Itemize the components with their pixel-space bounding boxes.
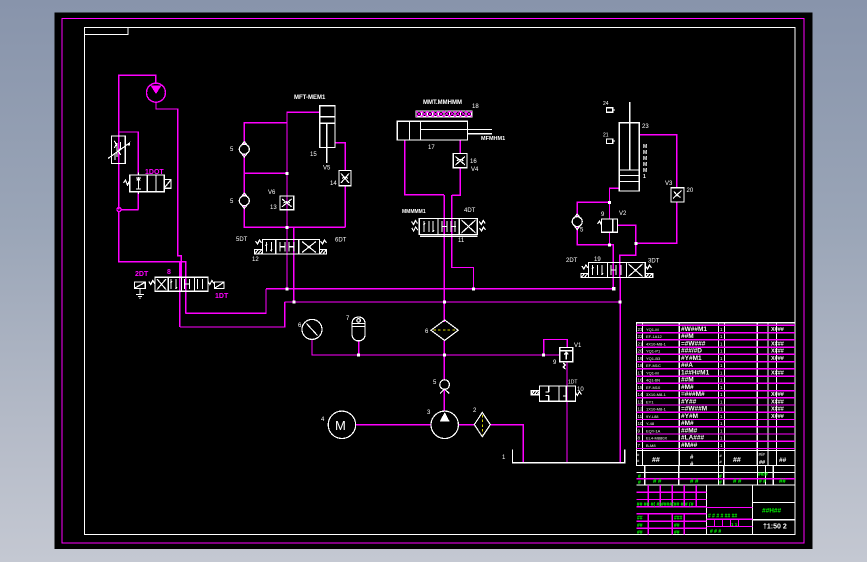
wire valve 12 port line 2 [293, 227, 295, 302]
svg-text:1DOT: 1DOT [145, 169, 164, 176]
svg-text:20: 20 [687, 188, 694, 194]
svg-text:## ## #( #)####(## # # (#: ## ## #( #)####(## # # (# [637, 502, 694, 508]
bus pump outlet manifold [311, 354, 559, 356]
svg-text:#M#: #M# [681, 384, 694, 391]
svg-text:#Y#M1: #Y#M1 [681, 355, 702, 362]
svg-text:2DT: 2DT [566, 258, 578, 264]
svg-text:1DT: 1DT [215, 293, 229, 300]
limit switch 24 [603, 101, 615, 112]
svg-text:X###: X### [771, 407, 784, 413]
wire check valve to pump [443, 389, 445, 411]
svg-text:22: 22 [638, 334, 644, 339]
wire slide cylinder left port [405, 140, 444, 195]
svg-text:3DT: 3DT [648, 259, 660, 265]
svg-text:###: ### [674, 516, 683, 522]
svg-text:1: 1 [643, 174, 646, 180]
svg-text:2DT: 2DT [135, 271, 149, 278]
oil tank 1 [513, 449, 625, 462]
svg-text:##: ## [779, 479, 786, 485]
bus B pressure manifold [285, 301, 620, 303]
wire branch to valve V7 top [119, 132, 139, 210]
BOM parts list table [636, 323, 795, 468]
wire check valve 5b leg [243, 173, 245, 196]
svg-text:EY1: EY1 [646, 399, 654, 404]
directional valve 19 (2DT/3DT) [566, 257, 660, 278]
svg-text:YQ1-M: YQ1-M [646, 370, 659, 375]
check valve 5b [239, 193, 249, 209]
svg-text:6DT: 6DT [335, 238, 347, 244]
svg-text:†1:50 2: †1:50 2 [763, 524, 787, 531]
check valve 5d [440, 380, 450, 394]
svg-text:##: ## [652, 457, 660, 464]
wire filter 6 riser [443, 340, 445, 380]
throttle valve V5 [330, 171, 351, 187]
svg-text:##: ## [674, 523, 680, 529]
hatched rack 18 [416, 100, 479, 117]
svg-text:#Y##: #Y## [681, 398, 697, 405]
wire V3 down to junction [636, 202, 677, 243]
svg-text:X###: X### [771, 349, 784, 355]
limit switch 21 [603, 133, 615, 144]
node N1 [117, 208, 121, 212]
svg-text:4Q1-6N: 4Q1-6N [646, 378, 660, 383]
wire valve 12 port line 1 [286, 227, 288, 289]
svg-text:21: 21 [638, 342, 644, 347]
svg-text:V3: V3 [665, 181, 673, 187]
svg-text:MMMMM1: MMMMM1 [402, 209, 426, 215]
directional valve 12 (5DT/6DT) [236, 237, 347, 263]
svg-text:# #: # # [653, 479, 662, 485]
svg-text:EF-M1C: EF-M1C [646, 363, 661, 368]
wire V4 to valve 11 [452, 168, 461, 195]
wire valve 19 P long drop to tank [619, 278, 621, 462]
svg-text:1DT: 1DT [568, 380, 577, 386]
svg-text:15: 15 [638, 385, 644, 390]
wire check valve 5c to valve 19 [577, 227, 609, 245]
svg-text:1X10-M8-1: 1X10-M8-1 [646, 407, 667, 412]
wire check valve 5a branch [244, 123, 287, 145]
svg-text:18: 18 [638, 363, 644, 368]
svg-text:17: 17 [638, 370, 644, 375]
svg-text:4X10-M8-1: 4X10-M8-1 [646, 342, 667, 347]
svg-text:14: 14 [330, 181, 337, 187]
svg-text:9Y-L88: 9Y-L88 [646, 414, 659, 419]
hydraulic pump 3 [427, 410, 458, 438]
svg-text:=###M#: =###M# [681, 391, 705, 398]
svg-text:X###: X### [771, 414, 784, 420]
svg-text:##M: ##M [681, 333, 694, 340]
wire pump feed top-left [119, 75, 156, 209]
svg-text:17: 17 [428, 145, 435, 151]
wire valve V7 bottom to node [121, 209, 138, 211]
svg-text:#/#: #/# [759, 452, 766, 457]
throttle valve V6 [268, 190, 294, 211]
svg-text:X###: X### [771, 370, 784, 376]
svg-text:15: 15 [310, 152, 317, 158]
svg-text:10: 10 [577, 387, 584, 393]
svg-text:=#W###: =#W### [681, 341, 706, 348]
svg-text:EF-M10: EF-M10 [646, 385, 661, 390]
wire strainer to tank [490, 425, 523, 462]
wire motor shaft [356, 424, 431, 426]
wire gauge drop [311, 339, 313, 355]
filter 6 diamond [425, 320, 458, 340]
wire lower bus of clamp group [244, 206, 345, 227]
accumulator 7 [346, 316, 365, 341]
svg-text:YQ1-M: YQ1-M [646, 327, 659, 332]
wire node to valve 8 [119, 212, 186, 314]
wire slide cylinder right port via V4 [459, 140, 461, 154]
svg-text:10: 10 [638, 421, 644, 426]
magenta border frame [62, 19, 804, 544]
flow control valve FC1 [108, 136, 130, 163]
svg-text:V1: V1 [574, 343, 582, 349]
svg-text:##: ## [733, 457, 741, 464]
check valve 5a [239, 142, 249, 158]
svg-text:##: ## [779, 457, 787, 464]
bus A tank return [266, 288, 614, 290]
svg-text:# #: # # [733, 479, 742, 485]
lift cylinder 23 [619, 102, 649, 191]
svg-text:5DT: 5DT [236, 237, 248, 243]
svg-text:##A: ##A [681, 362, 693, 369]
svg-text:#M#: #M# [681, 420, 694, 427]
svg-text:##: ## [674, 530, 680, 536]
svg-text:#: # [638, 480, 641, 486]
svg-text:EF-1A12: EF-1A12 [646, 334, 663, 339]
wire valve 8 to bus A [186, 289, 266, 314]
svg-text:24: 24 [603, 101, 609, 107]
svg-text:13: 13 [638, 399, 644, 404]
solenoid valve V7 label 1DOT [124, 169, 172, 194]
svg-text:MFMHM1: MFMHM1 [481, 136, 505, 142]
svg-text:8: 8 [167, 269, 171, 276]
directional valve 11 (4DT) [402, 208, 486, 244]
svg-text:##/#: ##/# [758, 472, 768, 478]
horizontal slide cylinder 17 [397, 121, 505, 151]
svg-text:# #: # # [759, 479, 766, 485]
svg-text:X###: X### [771, 342, 784, 348]
wire check valve 5a to mid junction [244, 154, 287, 173]
svg-text:1##H#M1: 1##H#M1 [681, 369, 710, 376]
wire clamp cylinder rod side via V5 [335, 143, 346, 171]
svg-text:YQ1-P1: YQ1-P1 [646, 349, 661, 354]
svg-text:V2: V2 [619, 211, 627, 217]
pilot valve V2 [598, 211, 628, 232]
wire valve 8 port A [179, 262, 181, 327]
svg-text:#LA###: #LA### [681, 435, 705, 442]
wire valve 11 T to bus A [452, 195, 474, 289]
svg-text:EQY-1A: EQY-1A [646, 428, 661, 433]
svg-text:16: 16 [638, 378, 644, 383]
svg-text:1 1: 1 1 [731, 522, 738, 527]
svg-text:19: 19 [594, 257, 601, 263]
svg-text:#M##: #M## [681, 442, 698, 449]
svg-text:14: 14 [638, 392, 644, 397]
svg-text:##: ## [759, 460, 765, 466]
wire check valve 5c bypass [577, 202, 609, 216]
svg-text:3X10-M8-1: 3X10-M8-1 [646, 392, 667, 397]
svg-text:MMT.MMHMM: MMT.MMHMM [423, 100, 462, 106]
pressure gauge 8 [298, 319, 322, 339]
throttle valve V4 [453, 154, 479, 174]
wire clamp cylinder rodless line [287, 112, 320, 289]
svg-text:23: 23 [642, 124, 649, 130]
directional valve 8 (2DT/1DT) [135, 269, 229, 300]
svg-text:X###: X### [771, 327, 784, 333]
svg-text:B-M8: B-M8 [646, 443, 656, 448]
junction dots [286, 172, 638, 357]
relief valve V1 [553, 343, 582, 369]
svg-text:13: 13 [270, 205, 277, 211]
svg-text:Y-48: Y-48 [646, 421, 655, 426]
svg-text:# #: # # [690, 479, 699, 485]
svg-text:##M: ##M [681, 377, 694, 384]
svg-text:X###: X### [771, 392, 784, 398]
svg-text:##: ## [637, 523, 643, 529]
white border frame [85, 28, 796, 535]
svg-text:11: 11 [638, 414, 643, 419]
wire pump outlet to main line [156, 102, 181, 277]
svg-text:12: 12 [252, 257, 259, 263]
frame corner tab [85, 28, 129, 35]
throttle valve V3 [665, 181, 694, 202]
svg-text:M: M [335, 418, 346, 433]
svg-text:21: 21 [603, 133, 609, 139]
svg-text:19: 19 [638, 356, 644, 361]
svg-text:23: 23 [638, 327, 644, 332]
svg-text:##H##: ##H## [762, 508, 782, 515]
wire pump suction to strainer [458, 424, 474, 426]
wire accumulator drop [358, 341, 360, 355]
wire lift cylinder rod side to V3 [639, 135, 677, 188]
svg-text:#Y#M: #Y#M [681, 413, 698, 420]
pump/motor symbol magenta top-left [147, 83, 166, 102]
svg-text:# # #: # # # [710, 529, 721, 535]
svg-text:V6: V6 [268, 190, 276, 196]
unloader valve 10 (7DT) [531, 380, 584, 402]
electric motor 4 [321, 411, 356, 438]
svg-text:##: ## [637, 516, 643, 522]
svg-text:#W##M1: #W##M1 [681, 326, 707, 333]
wire V2 out to valve 19 [617, 225, 636, 277]
svg-text:##: ## [637, 530, 643, 536]
svg-text:X###: X### [771, 399, 784, 405]
wire relief valve V1 drain to tank [566, 362, 568, 462]
svg-text:18: 18 [472, 104, 479, 110]
svg-text:4DT: 4DT [464, 208, 476, 214]
wire V5 down [344, 186, 346, 228]
clamp cylinder 15 [294, 95, 335, 172]
svg-text:#: # [719, 480, 722, 486]
wire through V2 down [610, 232, 614, 289]
wire valve 8 to bus B [180, 302, 285, 327]
svg-text:11: 11 [458, 238, 465, 244]
wire relief valve pilot loop [544, 340, 568, 356]
svg-text:###/#D: ###/#D [681, 348, 702, 355]
svg-text:16: 16 [470, 159, 477, 165]
title block [636, 466, 795, 536]
suction strainer 2 [473, 408, 490, 437]
svg-text:X###: X### [771, 356, 784, 362]
check valve 5c [572, 214, 582, 230]
wire lift cylinder bottom [610, 188, 620, 219]
svg-text:##M#: ##M# [681, 427, 698, 434]
svg-text:20: 20 [638, 349, 644, 354]
svg-text:=#W##M: =#W##M [681, 406, 707, 413]
svg-text:MFT-MEM1: MFT-MEM1 [294, 95, 326, 101]
wire valve 11 P to filter riser [443, 195, 445, 322]
svg-text:YQ1-B3: YQ1-B3 [646, 356, 661, 361]
svg-text:V5: V5 [323, 166, 331, 172]
svg-text:V4: V4 [471, 167, 479, 173]
svg-text:EL4-M880X: EL4-M880X [646, 436, 667, 441]
svg-text:12: 12 [638, 407, 644, 412]
